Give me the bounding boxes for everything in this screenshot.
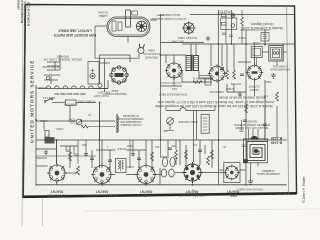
ground under output tube [271,73,276,78]
tone cap box [201,115,209,134]
wire lower horizontals [36,165,48,167]
wire from dome box right [52,102,65,104]
bottom bus y186 [36,184,287,186]
spoked circle in racetrack [136,21,146,31]
top right caps cluster box [221,18,237,30]
wires bottom connections [56,182,58,185]
long verticals [160,14,162,140]
bus y156 partial [36,155,96,157]
text vibrator label [210,90,224,94]
output tube circle [246,64,264,82]
bottom tube 2 [91,164,113,186]
wire y150 segments [36,148,56,150]
wires left mid [35,85,37,186]
wire y110.5 with crossover hump [166,108,215,111]
text misc value labels [117,80,271,150]
wire horizontal y44 [182,43,294,45]
svg-text:©John F. Rider: ©John F. Rider [301,176,306,203]
text B-1248 B-1249 right [271,136,282,144]
wire antenna bottom lead [257,162,259,167]
wire verticals around speaker socket [99,55,101,83]
capacitor marks left of spiral [240,130,246,147]
text aerial connector [143,49,160,60]
box speaker field left [251,47,262,58]
resistor top right x242 [241,10,243,17]
main bus y140 [36,139,287,141]
small resistor boxes [222,14,227,17]
tone control symbol [167,118,174,125]
pilot light circle [98,84,102,88]
text socket label below [103,89,127,96]
text fuse label top [217,10,230,13]
filament chain wire [38,88,108,90]
wire vertical 265 [264,30,266,46]
fuse + switch left [42,96,55,99]
wires upper right grid [240,29,270,31]
output transformer nested rects [269,46,283,62]
svg-text:UNITED: UNITED [17,0,21,10]
suppressor circle left [46,76,49,79]
resistor horizontal spark plate [193,81,202,84]
spiral loop antenna [244,139,269,163]
text output dynamic speaker arrows [151,13,186,20]
wire transformer top to bus [190,44,192,55]
wire y62 right [246,61,251,63]
noise overlay [0,0,1,1]
wire box to output tube [256,58,258,66]
wire right verticals lower [264,106,266,140]
text misc tiny labels [40,12,260,149]
small box on racetrack [132,11,138,15]
antenna coil vertical [116,114,118,133]
relay box right of cluster [261,33,269,42]
wire stub left of racetrack [103,25,107,27]
wire left top area small grid [47,61,60,63]
node junction dots [35,43,266,186]
resistor below volume [81,125,88,128]
wire filament right link [94,88,109,90]
electrolytic cap circles with + [231,14,235,18]
text speaker label right [270,64,290,71]
bottom tube 5 in box [224,163,240,183]
text socket label [177,36,197,40]
text spark plate [191,77,204,81]
text block gang condenser [118,114,144,126]
text antenna label below [256,169,280,175]
text 1.30.41 [276,191,290,196]
wire top bus y14.5 and interconnect wires [36,15,294,185]
text A LEAD arrow [36,86,49,90]
wire vertical 246 [245,30,247,44]
text Models B-1248 and B-1249 Circuit Diagram (rotated 180) [242,22,282,30]
wire risers above spiral [252,129,254,140]
border left thick [23,5,25,197]
wire y82 spark plate row [182,81,212,83]
wire antenna top riser [248,129,250,140]
filament bumps [46,86,93,89]
antenna ground lug [243,159,248,163]
tube socket view B (top) [182,21,196,35]
wire mid bus y55 [161,54,187,56]
text 0Z4 label [172,87,178,91]
wire oval bottom to plug [161,42,205,44]
extra caps bottom mid [66,150,78,156]
capacitor marks mid-right [220,68,244,76]
wire arrow to speaker [150,19,157,21]
speaker plug symbol [138,44,145,54]
text 6K6GT label [248,85,260,92]
wire x96 drop [99,103,101,141]
rectifier tube circle 0Z4 [165,61,183,79]
inner right border line [287,6,289,194]
blob top of bottom-left area [45,137,55,144]
IF can between T2 T3 [116,159,127,173]
wire risers mid-right tubes to bus [166,44,246,92]
wire bottom slots [160,156,169,158]
capacitor marks below fuse box [222,33,233,37]
small rects inside racetrack [112,21,116,31]
ground at 208 [206,36,210,41]
ground bottom right [248,179,253,184]
wire fold line bottom [42,197,44,226]
border bottom thick [23,193,297,197]
wire top verticals [217,10,219,44]
text long caption mid (rotated 180) [155,96,273,108]
text dial lamp arrow [168,40,184,43]
vibrator unit racetrack outline [107,17,150,37]
antenna coil top loop [251,136,259,139]
capacitor C marks scattered [90,120,267,162]
misc small components bottom area [77,166,80,175]
text FOR SOCKET AND PARTS LAYOUT (rotated 180) [53,29,96,37]
text antenna label above [234,120,270,130]
vibrator can rect [126,10,131,27]
text special terminal note [44,54,82,61]
volume control circle [76,119,82,125]
wire fold line left page edge [22,2,23,226]
middle tube (2nd det) [208,64,226,82]
bottom tube 1 6SA7 [47,163,67,183]
box behind speaker socket [88,62,99,85]
wire left-mid grid [44,55,60,131]
resistor pair R mid-right [226,70,236,79]
oscillator coils left of T4 [162,157,167,167]
speaker socket tube circle left [110,66,129,85]
schematic border frame [23,5,297,198]
filament labels row [54,92,86,95]
wire verticals right mid [245,44,247,96]
resistor R vertical zigzags [69,92,279,161]
vibrator transformer [186,55,199,72]
bottom tube 4 [182,162,203,183]
ground mid right [238,92,242,97]
dome light cable box [65,100,76,105]
bottom tube 3 [135,164,157,186]
wire spark-plate area segments [161,76,213,86]
text LABEL B-1248 [98,11,107,18]
